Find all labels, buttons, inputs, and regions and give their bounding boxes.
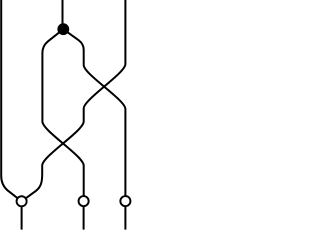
wire output stub below white node W3 <box>124 201 126 230</box>
wire output stub below white node W1 <box>21 201 23 229</box>
wire output stub below white node W2 <box>83 201 85 230</box>
white node W2 <box>79 196 89 206</box>
white node W1 <box>17 196 27 206</box>
wire dot right branch through swap 1 into white node W3 <box>63 29 125 201</box>
wire middle input into black dot <box>62 0 64 29</box>
wire right input through swap 1 and swap 2 into white node W1 <box>22 0 126 201</box>
wire left input down to white node W1 <box>1 0 21 201</box>
wire dot left branch through swap 2 into white node W2 <box>42 29 83 201</box>
black dot spider node <box>57 23 69 35</box>
white node W3 <box>120 196 130 206</box>
